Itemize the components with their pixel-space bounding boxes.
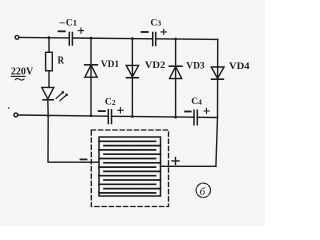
capacitor C2: [99, 108, 123, 124]
diode VD3: [169, 39, 182, 117]
node minus grid terminal: [80, 158, 86, 160]
capacitor C1: [59, 28, 84, 45]
terminal input bottom: [14, 113, 18, 117]
stray mark artifact left of C1: [60, 22, 64, 24]
resistor R: [46, 38, 53, 88]
electrode grid fingers: [99, 141, 161, 193]
wire bottom rail: [18, 115, 218, 118]
junction top rail VD3: [174, 38, 177, 41]
node plus grid terminal: [172, 157, 179, 164]
diode VD4: [211, 39, 224, 166]
wire grid positive lead: [161, 165, 216, 167]
junction top rail VD2: [131, 37, 134, 40]
junction bottom rail VD2: [131, 115, 134, 118]
wire top rail: [19, 37, 218, 39]
junction top rail VD1: [90, 37, 93, 40]
electrode grid frame: [99, 137, 161, 196]
swatter head dashed enclosure: [91, 130, 168, 207]
AC tilde: [15, 79, 24, 81]
diode VD2: [126, 39, 138, 117]
capacitor C3: [142, 29, 167, 45]
figure label circled b: [196, 183, 210, 198]
label 220V: [11, 66, 33, 78]
speck artifact: [8, 107, 10, 109]
terminal input top: [15, 35, 19, 39]
junction top rail R: [48, 36, 51, 39]
wire grid negative lead: [48, 116, 99, 163]
junction bottom rail LED branch: [47, 114, 50, 117]
paper noise overlay (decorative, no label needed): [0, 0, 1, 1]
LED indicator: [42, 87, 68, 115]
capacitor C4: [185, 108, 209, 124]
AC underline: [11, 75, 25, 77]
diode VD1: [85, 38, 98, 116]
junction bottom rail VD3: [174, 116, 177, 119]
junction bottom rail VD1: [90, 114, 93, 117]
